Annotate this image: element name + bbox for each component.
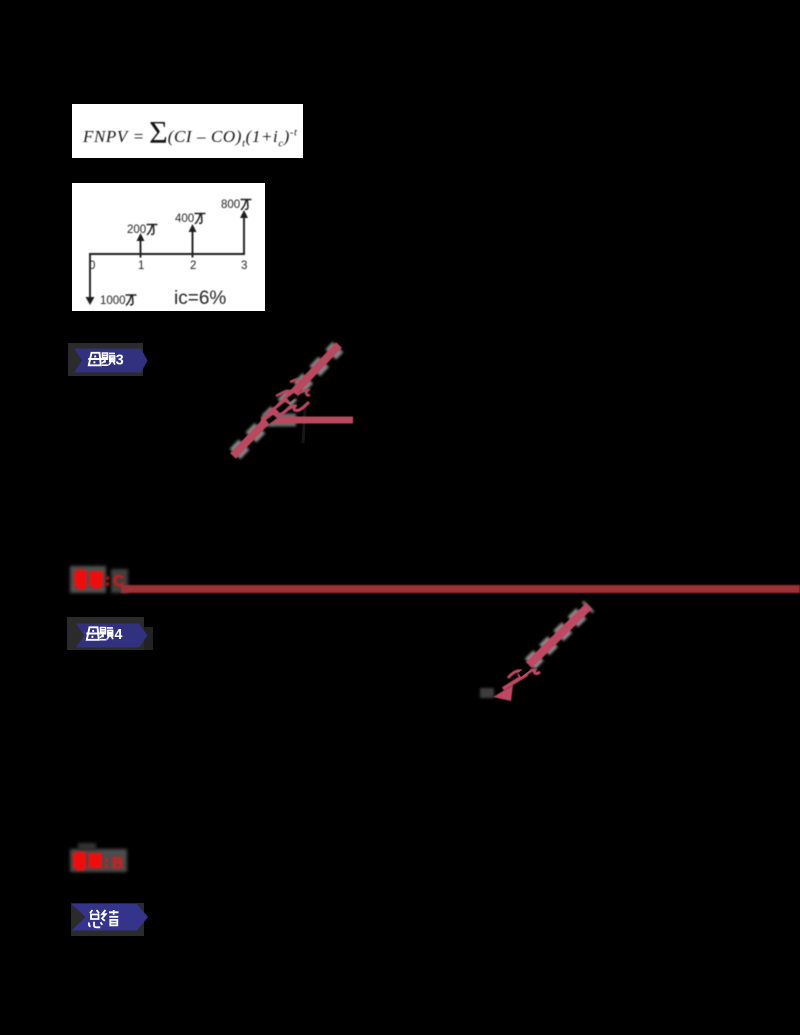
grey patch near arrowhead xyxy=(480,688,494,698)
up arrow at 2 (400万) xyxy=(192,230,194,254)
svg-text:1000: 1000 xyxy=(100,295,126,307)
glyph 万 after 400 xyxy=(195,214,206,225)
pink diagonal stroke xyxy=(233,345,339,456)
glyph 母 xyxy=(88,353,102,366)
glyph 结 xyxy=(102,910,119,925)
glyph 母 xyxy=(86,627,100,640)
pink thin shaft lower xyxy=(503,674,527,689)
glyph 题 xyxy=(102,353,115,365)
banner 母题4 xyxy=(74,621,154,650)
svg-text:B: B xyxy=(112,855,124,872)
glyph 万 after 1000 xyxy=(126,295,137,306)
svg-text:400: 400 xyxy=(175,213,194,225)
handwriting scribble group 1 xyxy=(200,330,400,480)
banner 母题4 halo xyxy=(67,617,144,650)
formula text xyxy=(72,104,303,158)
arrowhead xyxy=(493,685,513,701)
svg-text:ic=6%: ic=6% xyxy=(174,288,226,309)
up arrow at 3 (800万) xyxy=(243,216,245,254)
tick 1 xyxy=(140,254,142,258)
glyph 题 xyxy=(100,628,113,640)
thin dark vertical line (under strokes) xyxy=(303,407,305,443)
svg-text:4: 4 xyxy=(114,627,122,643)
up arrow at 1 (200万) xyxy=(140,239,142,254)
cash flow diagram xyxy=(72,183,265,311)
pink horizontal stroke xyxy=(261,417,353,424)
red answer text halo 1 xyxy=(70,566,106,593)
down arrow at 0 (1000万) xyxy=(89,254,91,297)
red answer text 答案: C xyxy=(68,564,138,596)
cash flow diagram box xyxy=(72,183,265,311)
svg-text:2: 2 xyxy=(190,260,196,272)
tick 2 xyxy=(192,254,194,258)
black blobs xyxy=(518,667,530,677)
timeline axis xyxy=(89,253,245,255)
axis number labels xyxy=(89,260,247,272)
dark red divider line xyxy=(121,585,800,593)
banner 总结 halo xyxy=(71,903,144,936)
banner 母题3 halo xyxy=(68,343,143,376)
handwriting scribble group 2 (arrow) xyxy=(470,590,610,715)
banner 母题3 xyxy=(72,346,152,375)
arrowhead 3 xyxy=(240,210,248,218)
black blobs over knot xyxy=(266,393,298,424)
pink arrow shaft thick xyxy=(529,606,589,665)
svg-text:200: 200 xyxy=(127,224,146,236)
grey halo of diagonal stroke xyxy=(235,347,338,454)
grey halo of arrow shaft xyxy=(530,606,589,664)
red answer text 答案: B xyxy=(68,846,138,878)
svg-text:0: 0 xyxy=(89,260,95,272)
knot scribbles xyxy=(508,670,540,678)
cash amount labels xyxy=(100,199,240,307)
glyph 总 xyxy=(89,910,102,927)
glyph 万 after 200 xyxy=(147,225,158,236)
glyph 万 after 800 xyxy=(241,200,252,211)
svg-text:800: 800 xyxy=(221,199,240,211)
red answer text halo 2 xyxy=(70,849,127,872)
grey halo of horizontal stroke xyxy=(264,414,296,427)
svg-text:3: 3 xyxy=(241,260,247,272)
arrowhead 1 xyxy=(137,233,145,241)
svg-text:3: 3 xyxy=(116,353,124,369)
scribble knot xyxy=(267,402,309,416)
formula box FNPV xyxy=(72,104,303,158)
banner 总结 xyxy=(71,903,151,932)
svg-text:1: 1 xyxy=(138,260,144,272)
arrowhead 2 xyxy=(189,224,197,232)
arrowhead 0 down xyxy=(86,297,95,305)
